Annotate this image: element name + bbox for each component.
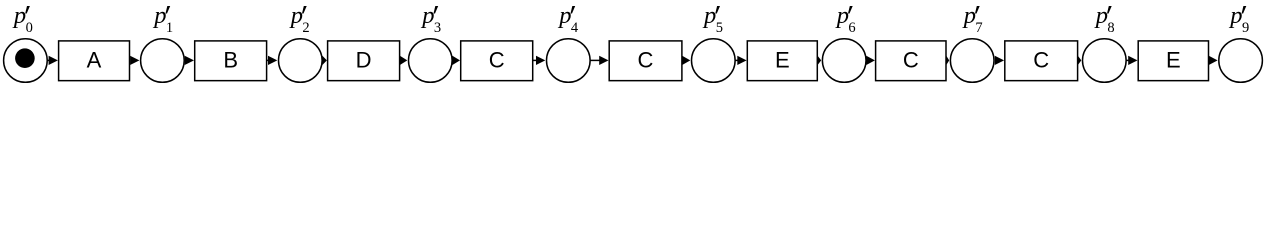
svg-text:p: p [12,2,26,29]
svg-text:p: p [835,2,849,29]
arc T4 to p4 [532,56,545,65]
label p'1 [152,2,173,36]
place p2 (circle) [279,39,323,83]
svg-text:5: 5 [716,20,723,36]
svg-text:C: C [489,47,505,72]
svg-text:E: E [775,47,790,72]
label p'6 [835,2,856,36]
svg-text:p: p [420,2,434,29]
svg-text:C: C [1033,47,1049,72]
arc p1 to T2 [185,56,194,65]
svg-text:C: C [638,47,654,72]
svg-text:1: 1 [166,20,173,36]
svg-text:8: 8 [1107,20,1114,36]
transition C (T5) [609,41,682,81]
svg-text:9: 9 [1242,20,1249,36]
svg-text:p: p [702,2,716,29]
arc p5 to T6 [735,56,747,65]
arc p4 to T5 [590,56,609,65]
arc p6 to T7 [866,56,875,65]
arc p7 to T8 [995,56,1004,65]
arc T5 to p5 [682,56,690,65]
transition C (T8) [1005,41,1078,81]
svg-text:p: p [289,2,303,29]
place p5 (circle) [692,39,736,83]
arc T1 to p1 [130,56,139,65]
svg-text:7: 7 [975,20,982,36]
svg-text:p: p [152,2,166,29]
svg-text:p: p [1228,2,1242,29]
svg-text:6: 6 [848,20,855,36]
transition E (T9) [1138,41,1208,81]
svg-text:p: p [557,2,571,29]
label p'3 [420,2,441,36]
svg-text:0: 0 [26,20,33,36]
place p0 (circle) [4,39,48,83]
arc p2 to T3 [322,56,327,65]
svg-text:2: 2 [302,20,309,36]
svg-text:B: B [223,47,238,72]
transition A (T1) [59,41,130,81]
place p6 (circle) [822,39,866,83]
svg-text:D: D [356,47,372,72]
arc T8 to p8 [1078,56,1081,65]
label p'7 [962,2,983,36]
label p'0 [12,2,33,36]
arc T2 to p2 [266,56,277,65]
label p'5 [702,2,723,36]
transition D (T3) [328,41,400,81]
arc T7 to p7 [946,56,949,65]
token in place p0 [15,48,35,68]
label p'4 [557,2,579,36]
transition B (T2) [195,41,267,81]
label p'9 [1228,2,1249,36]
label p'2 [289,2,310,36]
arc T3 to p3 [400,56,407,65]
place p7 (circle) [950,39,994,83]
transition E (T6) [747,41,817,81]
transition C (T4) [461,41,533,81]
arc p3 to T4 [452,56,460,65]
arc T6 to p6 [818,56,822,65]
place p3 (circle) [409,39,453,83]
arc p8 to T9 [1126,56,1138,65]
svg-text:E: E [1166,47,1181,72]
svg-text:p: p [962,2,976,29]
transition C (T7) [876,41,946,81]
place p4 (circle) [547,39,591,83]
svg-text:4: 4 [571,20,579,36]
svg-text:C: C [903,47,919,72]
arc T9 to p9 [1209,56,1218,65]
place p1 (circle) [141,39,185,83]
place p9 (circle) [1219,39,1263,83]
label p'8 [1094,2,1115,36]
place p8 (circle) [1083,39,1127,83]
svg-text:3: 3 [434,20,441,36]
svg-text:A: A [87,47,102,72]
svg-text:p: p [1094,2,1108,29]
arc p0 to T1 [47,56,58,65]
